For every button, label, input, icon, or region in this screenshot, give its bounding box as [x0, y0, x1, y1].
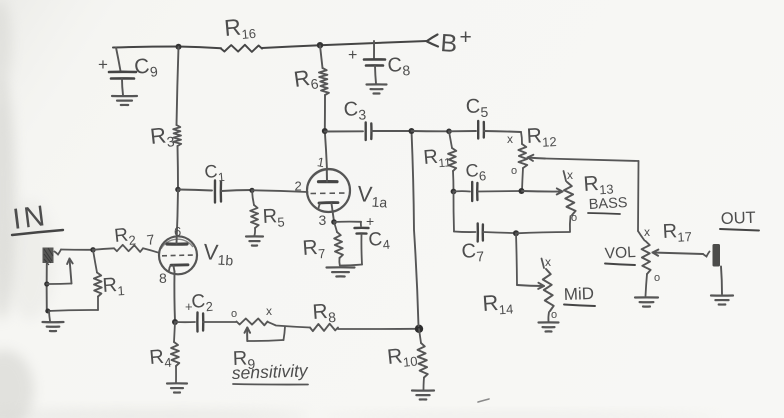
wire OUT gnd: [721, 267, 722, 295]
svg-text:o: o: [571, 212, 577, 224]
wire gnd stem IN: [49, 311, 50, 321]
input jack J1: [43, 248, 54, 266]
svg-text:+: +: [348, 47, 357, 64]
node V1a cathode: [331, 219, 337, 225]
capacitor C3: [325, 98, 412, 140]
svg-text:x: x: [266, 304, 272, 318]
ground R7 C4: [327, 267, 355, 276]
node F: [451, 189, 457, 195]
node E: [446, 129, 452, 135]
wire H to R13: [516, 232, 570, 233]
potentiometer R9: [231, 304, 310, 328]
tube triode U1 V1b: [159, 236, 197, 274]
jack switch arrow: [47, 259, 73, 285]
wire V1b plate: [177, 190, 179, 244]
resistor R5: [250, 190, 285, 235]
R13 wiper wire: [522, 188, 563, 194]
pin 2 V1a: [295, 179, 302, 194]
svg-text:+: +: [98, 55, 108, 74]
ground R4: [167, 383, 187, 392]
svg-text:BASS: BASS: [588, 195, 627, 213]
node rail-left: [176, 44, 182, 50]
svg-text:sensitivity: sensitivity: [231, 360, 309, 383]
svg-text:MiD: MiD: [563, 284, 594, 304]
capacitor C6: [454, 160, 522, 201]
node B: [249, 188, 254, 193]
svg-text:o: o: [511, 165, 517, 177]
svg-text:o: o: [231, 308, 237, 320]
svg-text:2: 2: [295, 179, 302, 194]
ground OUT: [711, 296, 733, 305]
node D: [409, 128, 415, 134]
resistor R8: [310, 299, 417, 331]
stray mark: [478, 399, 489, 402]
svg-text:VOL: VOL: [604, 244, 636, 263]
svg-text:+: +: [366, 213, 374, 229]
label R9: [232, 347, 255, 372]
node C: [322, 128, 328, 134]
wire jack tip: [55, 250, 94, 255]
pin 6 V1b: [174, 224, 181, 239]
ground R14: [539, 322, 559, 331]
label V1b: [202, 239, 234, 269]
pin 8 V1b: [159, 270, 167, 286]
ground IN: [43, 322, 64, 331]
svg-text:8: 8: [159, 270, 167, 286]
potentiometer R14: [482, 255, 558, 321]
wire F down: [452, 192, 455, 232]
resistor R4: [149, 322, 180, 383]
R12 wiper wire: [528, 155, 645, 241]
wire V1a plate: [325, 131, 327, 170]
svg-text:o: o: [654, 272, 660, 284]
label BASS: [588, 195, 628, 214]
svg-text:x: x: [567, 168, 573, 182]
label IN: [11, 200, 63, 236]
label MID: [563, 284, 595, 306]
pin 3 V1a: [319, 212, 327, 228]
resistor R16: [221, 12, 262, 52]
svg-text:B: B: [440, 29, 459, 58]
ground VOL: [635, 297, 658, 306]
label OUT: [720, 209, 759, 231]
svg-text:3: 3: [319, 212, 327, 228]
capacitor C5: [449, 95, 521, 138]
ground R5: [246, 236, 263, 245]
resistor R6: [292, 46, 329, 132]
node A: [175, 187, 181, 193]
resistor R7: [302, 222, 343, 266]
capacitor C4: [334, 213, 391, 266]
ground C8: [367, 84, 387, 93]
ground R10: [412, 391, 434, 400]
label VOL: [604, 244, 636, 265]
capacitor C7: [454, 224, 516, 266]
wire H down: [516, 233, 544, 289]
wire to V1a grid: [252, 190, 308, 192]
wire R1 bottom: [48, 310, 99, 311]
label V1a: [356, 181, 388, 211]
potentiometer R12: [507, 123, 557, 190]
wire R14 gnd: [547, 312, 550, 322]
wire V1b cathode: [173, 272, 176, 322]
wire B+ rail: [113, 41, 427, 48]
resistor R1: [93, 250, 125, 310]
wire jack sleeve: [46, 263, 48, 311]
resistor R3: [149, 47, 181, 189]
terminal B+: [427, 26, 472, 58]
output jack J2: [713, 244, 721, 267]
node G: [519, 188, 525, 194]
resistor R10: [386, 329, 428, 390]
tube triode U1 V1a: [307, 169, 350, 222]
svg-text:x: x: [644, 225, 650, 239]
ground C9: [112, 96, 137, 105]
node rail-right: [317, 42, 323, 48]
capacitor C1: [178, 160, 252, 202]
node K (V1b cathode): [172, 319, 178, 325]
node H: [513, 230, 519, 236]
svg-text:x: x: [545, 255, 551, 269]
VOL wiper wire: [653, 250, 710, 257]
svg-text:6: 6: [174, 224, 181, 239]
capacitor C9: [98, 48, 159, 96]
label sensitivity: [231, 360, 309, 384]
pin 7 V1b: [146, 231, 156, 248]
potentiometer R17 VOL: [642, 220, 693, 296]
svg-text:o: o: [551, 309, 557, 321]
potentiometer R13: [564, 168, 615, 224]
wire R13 bottom: [569, 216, 572, 232]
node R1 gnd: [45, 309, 50, 314]
svg-text:OUT: OUT: [721, 209, 756, 228]
pin 1 V1a: [316, 154, 326, 170]
capacitor C8: [348, 41, 411, 84]
R9 wiper: [245, 327, 286, 342]
node jack sleeve: [44, 281, 49, 286]
node M (R8/R10): [415, 325, 423, 333]
svg-text:x: x: [507, 132, 513, 146]
resistor R2: [93, 224, 159, 253]
capacitor C2: [175, 290, 236, 331]
node IN: [90, 247, 95, 252]
resistor R11: [423, 131, 457, 191]
wire C3 to node M: [412, 131, 419, 326]
svg-text:+: +: [460, 26, 472, 49]
wire D to E: [412, 130, 450, 132]
